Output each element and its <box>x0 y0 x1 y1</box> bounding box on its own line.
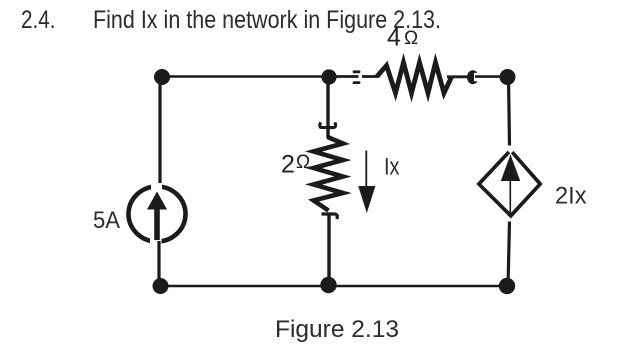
wire bottom rail <box>160 285 507 288</box>
wire top-left horizontal <box>161 75 330 78</box>
node top-left <box>154 69 170 85</box>
lead mark at 2-ohm bottom terminal <box>322 214 338 219</box>
problem statement text <box>93 6 441 34</box>
wire left vertical upper <box>158 76 161 187</box>
wire middle vertical lower <box>327 215 330 286</box>
problem number label 2.4. <box>21 6 56 34</box>
wire left vertical lower <box>157 241 160 287</box>
wire middle vertical upper <box>326 77 329 138</box>
dependent source arrow (up) <box>501 155 520 214</box>
wire 4-ohm to top-right node <box>447 75 508 78</box>
svg-text:2: 2 <box>281 151 295 179</box>
resistor R 2-ohm zigzag <box>314 137 344 211</box>
svg-text:5A: 5A <box>93 207 120 234</box>
resistor R 4-ohm zigzag <box>377 63 452 94</box>
svg-text:Figure 2.13: Figure 2.13 <box>275 316 399 343</box>
svg-text:4: 4 <box>387 24 401 52</box>
lead mark at 2-ohm top terminal <box>320 122 336 127</box>
svg-text:Ω: Ω <box>296 152 310 173</box>
wire right vertical lower <box>508 222 510 288</box>
node bottom-middle <box>320 277 336 293</box>
value label 4 ohm <box>387 24 418 52</box>
value label 2 ohm <box>281 151 310 179</box>
node bottom-right <box>499 278 515 294</box>
current arrow Ix <box>358 151 375 214</box>
current source I1 arrow (up) <box>147 192 167 241</box>
label Ix <box>384 154 400 181</box>
caption Figure 2.13 <box>275 316 399 343</box>
value label 5A <box>93 207 120 234</box>
node bottom-left <box>153 278 169 294</box>
value label 2Ix <box>555 183 587 210</box>
wire top-middle to 4-ohm resistor (with lead break) <box>330 75 378 78</box>
svg-text:Ix: Ix <box>384 154 400 181</box>
svg-text:2Ix: 2Ix <box>555 183 587 210</box>
dependent current source 2Ix diamond <box>479 152 540 216</box>
node top-middle <box>321 69 336 84</box>
lead mark at 4-ohm left terminal <box>353 70 361 84</box>
svg-text:2.4.: 2.4. <box>21 6 56 34</box>
wire right vertical upper <box>509 77 510 146</box>
current source I1 5A circle <box>129 183 186 246</box>
lead blob at 4-ohm right terminal <box>467 70 479 84</box>
svg-text:Ω: Ω <box>404 28 418 49</box>
node top-right <box>500 69 516 85</box>
